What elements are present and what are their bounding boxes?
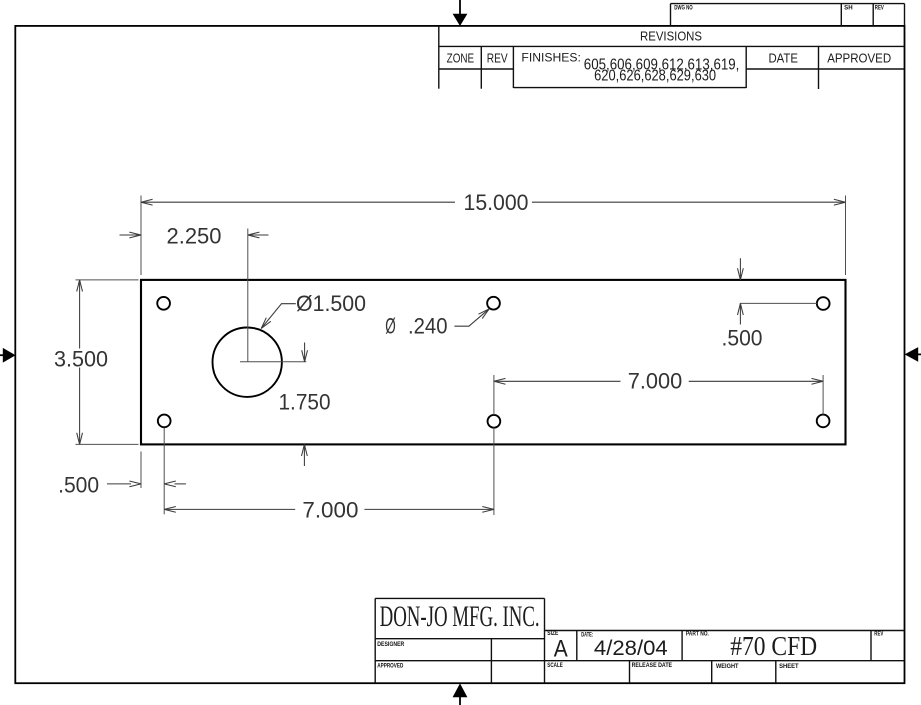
svg-text:15.000: 15.000 — [464, 190, 529, 215]
svg-text:Ø: Ø — [385, 314, 396, 339]
svg-text:DATE: DATE — [768, 52, 798, 66]
svg-text:APPROVED: APPROVED — [377, 664, 404, 670]
svg-text:RELEASE DATE: RELEASE DATE — [632, 663, 673, 669]
svg-text:2.250: 2.250 — [167, 224, 222, 249]
svg-text:7.000: 7.000 — [628, 368, 683, 393]
svg-text:WEIGHT: WEIGHT — [716, 664, 739, 670]
svg-text:SH: SH — [844, 5, 853, 11]
svg-text:REVISIONS: REVISIONS — [640, 30, 702, 44]
svg-text:DON-JO MFG. INC.: DON-JO MFG. INC. — [380, 600, 540, 633]
svg-text:DESIGNER: DESIGNER — [377, 642, 405, 648]
svg-text:SCALE: SCALE — [547, 663, 563, 669]
svg-text:#70 CFD: #70 CFD — [730, 631, 817, 661]
svg-text:7.000: 7.000 — [302, 497, 358, 522]
svg-text:3.500: 3.500 — [54, 346, 108, 371]
svg-text:REV: REV — [487, 52, 509, 66]
svg-text:A: A — [554, 636, 568, 663]
svg-text:SHEET: SHEET — [779, 664, 799, 670]
svg-text:.240: .240 — [408, 314, 448, 339]
svg-text:APPROVED: APPROVED — [827, 52, 891, 66]
svg-text:REV: REV — [875, 5, 884, 11]
svg-text:4/28/04: 4/28/04 — [594, 636, 668, 660]
svg-text:Ø1.500: Ø1.500 — [296, 291, 366, 316]
svg-text:FINISHES:: FINISHES: — [521, 53, 581, 65]
svg-text:620,626,628,629,630: 620,626,628,629,630 — [594, 67, 716, 84]
svg-text:DATE:: DATE: — [581, 633, 593, 639]
svg-text:1.750: 1.750 — [279, 389, 331, 414]
svg-text:PART NO.: PART NO. — [686, 632, 709, 638]
svg-text:.500: .500 — [722, 325, 763, 350]
svg-text:DWG NO: DWG NO — [674, 5, 693, 11]
svg-text:.500: .500 — [58, 473, 99, 498]
svg-text:ZONE: ZONE — [447, 52, 475, 66]
svg-text:REV: REV — [874, 632, 883, 638]
